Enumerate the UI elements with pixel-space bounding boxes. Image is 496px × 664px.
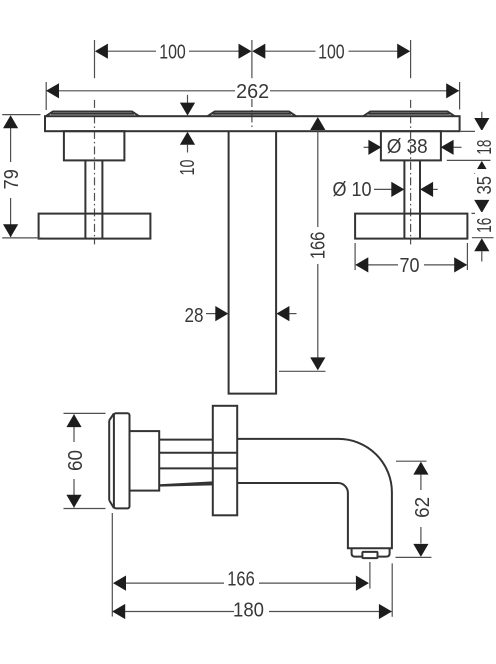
- aerator step: [352, 548, 390, 556]
- dim Ø 38: [364, 135, 462, 158]
- extension line 262 left: [45, 82, 47, 110]
- right dimension chain 18/35/16: [447, 112, 496, 262]
- dim Ø 10: [333, 178, 438, 201]
- right handle stem: [403, 160, 405, 238]
- svg-text:16: 16: [473, 218, 496, 233]
- svg-text:35: 35: [473, 176, 496, 195]
- dim 62: [396, 461, 435, 557]
- svg-text:60: 60: [64, 450, 87, 471]
- centerline spout: [251, 40, 253, 78]
- pad left: [46, 112, 139, 117]
- spout body: [237, 439, 392, 548]
- spout column: [229, 131, 277, 393]
- dim 79: [0, 115, 41, 238]
- svg-text:262: 262: [236, 80, 269, 103]
- pipe inner lines: [159, 452, 237, 454]
- dim 28: [185, 304, 297, 327]
- centerline left handle: [94, 40, 96, 78]
- plate (escutcheon bar): [45, 116, 460, 131]
- svg-text:166: 166: [306, 232, 329, 260]
- vertical plate (side): [213, 406, 237, 516]
- svg-text:10: 10: [176, 160, 199, 176]
- dim 60: [64, 413, 106, 508]
- extension line 262 right: [459, 82, 461, 110]
- wall flange: [109, 413, 129, 508]
- svg-text:Ø 38: Ø 38: [387, 135, 428, 158]
- pad middle: [208, 112, 297, 117]
- svg-text:79: 79: [0, 169, 23, 189]
- dim 10 (plate thickness): [176, 95, 199, 176]
- dim 262: [46, 80, 459, 103]
- svg-text:100: 100: [318, 40, 345, 63]
- svg-text:18: 18: [473, 140, 496, 155]
- right handle escutcheon: [381, 131, 441, 160]
- pipe bottom wedge: [160, 482, 213, 485]
- centerline right handle: [410, 40, 412, 78]
- svg-text:62: 62: [411, 497, 434, 518]
- svg-text:70: 70: [400, 254, 420, 277]
- svg-text:100: 100: [159, 40, 186, 63]
- left handle escutcheon: [64, 131, 125, 160]
- dim 180: [112, 513, 392, 622]
- svg-text:28: 28: [185, 304, 204, 327]
- pad right: [363, 112, 454, 117]
- dim 166 (bottom): [113, 562, 370, 592]
- dim 100 (right): [252, 40, 410, 63]
- svg-text:166: 166: [227, 568, 255, 591]
- dim 100 (left): [95, 40, 252, 63]
- svg-text:Ø 10: Ø 10: [333, 178, 372, 201]
- pipe top line: [159, 439, 213, 441]
- collar: [130, 431, 160, 491]
- left handle stem: [84, 160, 86, 238]
- dim 166 (top view): [279, 117, 329, 371]
- left handle bar: [39, 214, 151, 239]
- right handle bar: [355, 214, 467, 239]
- aerator insert: [362, 552, 377, 558]
- dim 70: [355, 243, 467, 277]
- svg-text:180: 180: [233, 599, 264, 622]
